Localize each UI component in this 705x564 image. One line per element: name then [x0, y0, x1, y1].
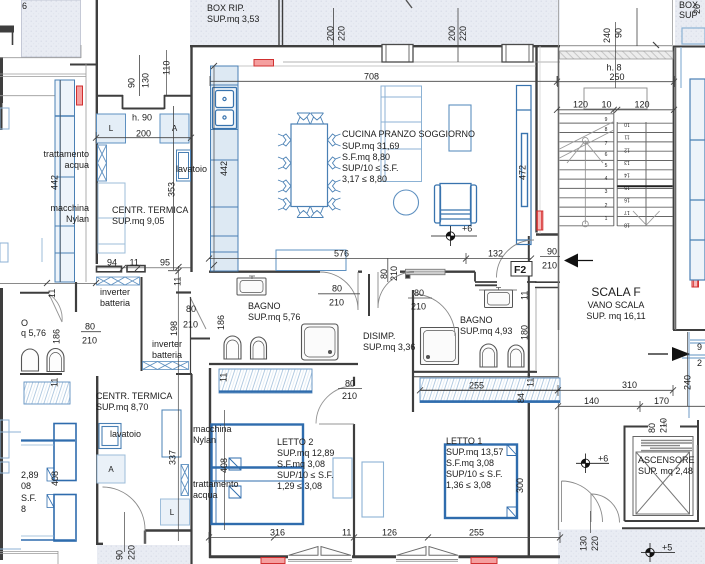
door disimp bottom to letto1 [316, 386, 354, 424]
left unit misc blue lines top [0, 432, 21, 549]
dim 90/130 rotated [127, 73, 151, 88]
svg-text:16: 16 [624, 197, 630, 203]
svg-text:inverter: inverter [100, 287, 130, 297]
svg-text:300: 300 [515, 478, 525, 493]
dim 442 left unit [60, 80, 62, 282]
svg-text:1,36 ≤ 3,08: 1,36 ≤ 3,08 [446, 480, 491, 490]
big room interior top line [210, 65, 536, 67]
grey area far right top [675, 0, 705, 47]
dim 240/90 stair top [560, 22, 672, 88]
dim 576 line [209, 253, 466, 264]
wall y336 stub [191, 338, 210, 340]
left unit wall line [85, 64, 87, 282]
svg-text:2,89: 2,89 [21, 470, 39, 480]
dim 110 [166, 50, 168, 95]
svg-text:Nylan: Nylan [66, 214, 89, 224]
wall letto1 right [528, 374, 530, 559]
dim 80/210 rotated near x388 [387, 258, 389, 282]
svg-text:h. 8: h. 8 [607, 63, 622, 73]
bagno1 wc [224, 336, 241, 359]
dim 90/220 door bottom left [124, 512, 126, 552]
svg-text:240: 240 [683, 375, 693, 390]
far right unit wall [675, 47, 677, 330]
kitchen sink [213, 88, 237, 129]
wall disimp/bagno2 divider [412, 290, 414, 412]
hatched wardrobe bagno1 [219, 369, 312, 393]
svg-text:S.F.mq 3,08: S.F.mq 3,08 [446, 458, 494, 468]
box L letto2 corner [161, 410, 190, 525]
door bagno1 (from soggiorno) [320, 272, 358, 310]
dim line h8/250 [557, 76, 675, 87]
svg-text:SUP.mq 12,89: SUP.mq 12,89 [277, 448, 334, 458]
svg-text:3: 3 [605, 189, 608, 195]
wall y374 left-center [176, 373, 192, 375]
chairs left [278, 134, 291, 210]
left unit bidet [47, 349, 64, 372]
svg-text:2: 2 [697, 358, 702, 368]
X hatch box inverter2 [143, 362, 189, 370]
stair step numbers right flight (mirrored) [624, 121, 630, 228]
svg-text:120: 120 [573, 100, 588, 110]
svg-text:576: 576 [334, 249, 349, 259]
dim 94 11 95 [96, 267, 191, 269]
svg-text:408: 408 [50, 471, 60, 486]
svg-text:353: 353 [167, 182, 177, 197]
svg-text:S.F.mq 8,80: S.F.mq 8,80 [342, 152, 390, 162]
sill line under top windows [283, 61, 560, 63]
dim line 120 10 120 [557, 109, 675, 111]
chairs bottom [297, 207, 324, 218]
lift X box [636, 452, 690, 514]
wall BOX RIP right (double) [279, 0, 283, 46]
stair rail line and circles [584, 141, 586, 225]
wall left corridor stub [75, 282, 77, 312]
wall centr.termica top (door gap 123-164) [96, 96, 191, 109]
svg-text:11: 11 [130, 258, 139, 268]
stair step numbers left flight [605, 117, 608, 222]
svg-text:SUP: SUP [679, 10, 698, 20]
svg-text:84: 84 [516, 393, 526, 403]
dim 130/220 bottom right [590, 511, 592, 533]
left unit edge fixtures [0, 108, 9, 473]
svg-text:SCALA F: SCALA F [591, 285, 640, 299]
wall cavity top right [535, 282, 560, 287]
svg-text:SUP.mq 8,70: SUP.mq 8,70 [96, 402, 148, 412]
svg-text:110: 110 [162, 61, 172, 75]
svg-text:3,17 ≤ 8,80: 3,17 ≤ 8,80 [342, 174, 387, 184]
svg-text:A: A [172, 124, 178, 133]
kitchen counter strip [211, 66, 239, 271]
svg-text:h. 90: h. 90 [132, 113, 152, 123]
door jambs h.90 [123, 95, 165, 109]
svg-text:BAGNO: BAGNO [460, 315, 493, 325]
pouf circle [394, 190, 419, 215]
svg-text:1: 1 [605, 216, 608, 222]
svg-text:1,29 ≤ 3,08: 1,29 ≤ 3,08 [277, 481, 322, 491]
svg-text:08: 08 [21, 481, 31, 491]
vent X-box lower [181, 465, 189, 496]
svg-text:11: 11 [342, 528, 351, 538]
svg-text:13: 13 [624, 159, 630, 165]
svg-text:130: 130 [141, 73, 151, 88]
svg-text:trattamento: trattamento [43, 149, 89, 159]
stair flight dividers [614, 110, 646, 227]
svg-text:SUP.mq 3,36: SUP.mq 3,36 [363, 342, 415, 352]
arrow right unit (pointing right) [648, 353, 668, 355]
dim 80/210 left unit [81, 331, 101, 333]
left unit wc [22, 349, 39, 371]
marker +5 grey area [641, 543, 675, 563]
svg-text:4: 4 [605, 176, 608, 182]
svg-text:337: 337 [168, 450, 178, 465]
line under grey top-left block [0, 45, 81, 58]
wall bagno1 bottom [209, 363, 358, 365]
svg-text:11: 11 [624, 134, 629, 140]
svg-text:SUP.mq 5,76: SUP.mq 5,76 [248, 312, 300, 322]
stair landing rect [584, 88, 647, 109]
X hatch box corridor top [97, 277, 140, 285]
wall letto divider [353, 377, 355, 558]
wall top external (big room north wall) [190, 45, 560, 47]
door left unit bagno [49, 294, 62, 322]
bagno2 washbasin [479, 288, 517, 308]
svg-text:macchina: macchina [193, 424, 232, 434]
red marker top kitchen [254, 60, 274, 67]
wall inverter room top [176, 291, 191, 293]
dim 130/220 rotated [579, 536, 601, 551]
svg-text:186: 186 [216, 315, 226, 330]
svg-text:11: 11 [520, 291, 530, 300]
left unit thin lines [0, 74, 86, 96]
svg-text:6: 6 [605, 152, 608, 158]
door disimp top [378, 272, 414, 308]
dim 90/210 F2 [540, 255, 560, 257]
lift car [633, 437, 693, 516]
svg-text:210: 210 [659, 418, 669, 433]
sideboard bottom of soggiorno [276, 250, 346, 271]
grey area top-left block [22, 0, 81, 57]
bagno1 shower [302, 324, 339, 360]
wall top-left unit corner [70, 64, 97, 66]
tall cabinet strip left unit [55, 80, 75, 282]
dim 140/170 [558, 401, 705, 412]
svg-text:SUP.mq 4,93: SUP.mq 4,93 [460, 326, 512, 336]
svg-text:CENTR. TERMICA: CENTR. TERMICA [96, 391, 172, 401]
svg-text:SUP/10 ≤ S.F.: SUP/10 ≤ S.F. [446, 469, 502, 479]
svg-text:SUP.mq 31,69: SUP.mq 31,69 [342, 141, 399, 151]
svg-text:240: 240 [602, 28, 612, 43]
wall ascensore area [624, 420, 699, 521]
dim 353 v-line [168, 106, 179, 271]
door bagno2 [413, 294, 455, 336]
svg-text:6: 6 [22, 1, 27, 11]
svg-text:17: 17 [624, 209, 630, 215]
bagno2 wc [480, 344, 497, 367]
svg-text:12: 12 [624, 147, 630, 153]
left unit small marks [41, 238, 43, 262]
svg-text:LETTO 2: LETTO 2 [277, 437, 313, 447]
vent X-box termica [98, 145, 107, 181]
svg-text:SUP/10 ≤ S.F.: SUP/10 ≤ S.F. [342, 163, 398, 173]
red marker left unit [77, 86, 83, 105]
grey area BOX RIP and top band [190, 0, 560, 46]
svg-text:180: 180 [520, 325, 530, 340]
stair steps [560, 114, 673, 226]
svg-text:8: 8 [21, 504, 26, 514]
marker +6 landing [576, 454, 609, 474]
svg-text:11: 11 [173, 277, 183, 286]
box A lower [97, 455, 125, 483]
svg-text:210: 210 [542, 261, 557, 271]
dim 80/210 ascensore door [663, 420, 665, 427]
svg-text:+5: +5 [662, 543, 672, 553]
label F2 [511, 262, 532, 277]
svg-text:708: 708 [364, 72, 379, 82]
svg-text:170: 170 [654, 396, 669, 406]
svg-text:210: 210 [82, 336, 97, 346]
svg-text:200: 200 [326, 26, 336, 41]
svg-text:220: 220 [590, 536, 600, 551]
svg-text:210: 210 [411, 302, 426, 312]
dim 80/210 bagno1 door [318, 293, 360, 295]
dim 255 wardrobe line [420, 389, 560, 391]
svg-text:90: 90 [547, 247, 557, 257]
svg-text:80: 80 [85, 322, 95, 332]
bagno1 washbasin [237, 276, 266, 295]
svg-text:q 5,76: q 5,76 [21, 328, 46, 338]
bagno2 bidet [508, 345, 524, 367]
svg-text:9: 9 [697, 342, 702, 352]
left unit beds [21, 424, 76, 542]
dim 240/90 [602, 28, 624, 43]
svg-text:batteria: batteria [152, 350, 182, 360]
svg-text:80: 80 [647, 423, 657, 433]
dim 310 [558, 385, 673, 396]
dim 80/210 soggiorno-disimp rotated [379, 266, 399, 281]
chairs top [297, 113, 324, 124]
svg-text:126: 126 [382, 528, 397, 538]
dim 337 corridor [177, 266, 179, 541]
svg-text:140: 140 [584, 396, 599, 406]
window W1 [382, 45, 413, 63]
dim 442 kitchen v-line [213, 66, 215, 271]
wall letto2 corridor left [209, 368, 211, 558]
window W2 [502, 45, 533, 63]
svg-text:90: 90 [127, 78, 137, 88]
wall step F2 vestibule [475, 272, 537, 286]
svg-text:80: 80 [379, 269, 389, 279]
armchair [435, 184, 477, 226]
svg-text:130: 130 [579, 536, 589, 551]
wardrobe letto2 right [333, 458, 352, 498]
wall bagno1/disimp divider [368, 274, 370, 316]
svg-text:acqua: acqua [193, 490, 218, 500]
svg-text:442: 442 [50, 175, 60, 190]
svg-text:198: 198 [169, 321, 179, 336]
svg-text:11: 11 [219, 373, 229, 382]
wall bottom-left entry [96, 531, 191, 544]
svg-text:18: 18 [624, 222, 630, 228]
lavatoio box (upper) [177, 150, 191, 181]
svg-text:95: 95 [160, 258, 170, 268]
wall top-left corner piece [0, 26, 14, 33]
window letto1 south [396, 547, 458, 562]
macchina nylan box lower [162, 410, 181, 457]
svg-text:Nylan: Nylan [193, 435, 216, 445]
svg-text:macchina: macchina [50, 203, 89, 213]
svg-text:SUP. mq 2,48: SUP. mq 2,48 [638, 466, 693, 476]
chairs right [328, 134, 341, 210]
svg-text:S.F.mq 3,08: S.F.mq 3,08 [277, 459, 325, 469]
stair cut diagonals [560, 122, 614, 164]
wall BOX RIP left [190, 45, 192, 96]
dim 240 v [687, 332, 689, 406]
stair down arrow V [633, 211, 660, 225]
svg-text:CUCINA PRANZO SOGGIORNO: CUCINA PRANZO SOGGIORNO [342, 129, 475, 139]
box A [160, 114, 189, 143]
bagno1 bidet [251, 337, 267, 359]
wall inverter right thin [190, 297, 192, 374]
dim 316/11/126/255 bottom [209, 532, 560, 543]
svg-text:5: 5 [605, 163, 608, 169]
stair section cut thick [617, 185, 672, 187]
svg-text:10: 10 [624, 121, 630, 127]
svg-text:408: 408 [219, 458, 229, 473]
svg-text:472: 472 [518, 165, 528, 180]
svg-text:O: O [21, 318, 28, 328]
svg-text:trattamento: trattamento [193, 479, 239, 489]
svg-text:7: 7 [605, 141, 608, 147]
wall bagno2 bottom [413, 371, 537, 373]
svg-text:186: 186 [52, 329, 62, 344]
svg-text:11: 11 [50, 378, 60, 387]
svg-text:lavatoio: lavatoio [176, 164, 207, 174]
dim 200/220 v-lines top [334, 8, 638, 62]
svg-text:SUP.mq 3,53: SUP.mq 3,53 [207, 14, 259, 24]
stair shaft left wall [558, 46, 560, 330]
svg-text:442: 442 [219, 161, 229, 176]
svg-text:+6: +6 [598, 454, 608, 464]
svg-text:batteria: batteria [100, 298, 130, 308]
wall centr.termica 8,70 left [96, 376, 98, 544]
lavatoio box (lower) [99, 424, 121, 449]
boiler tall lightblue [98, 183, 125, 253]
wall middle horizontal y272 (bagno top) [209, 271, 475, 273]
wall stair right [673, 46, 675, 330]
wall inverter room center [141, 277, 143, 371]
svg-text:L: L [170, 508, 175, 517]
svg-text:A: A [108, 465, 114, 474]
svg-text:310: 310 [622, 380, 637, 390]
svg-text:F2: F2 [514, 264, 526, 276]
wall centr.termica left [96, 0, 98, 264]
dim 408 letto2 [224, 410, 226, 530]
window letto2 south [288, 547, 352, 562]
left unit bottom thin lines [0, 551, 58, 564]
svg-text:+6: +6 [462, 224, 472, 234]
bookcase tall (soggiorno) [381, 86, 422, 182]
svg-text:132: 132 [488, 249, 503, 259]
svg-text:SUP. mq 16,11: SUP. mq 16,11 [586, 311, 645, 321]
bagno2 shower [421, 328, 459, 365]
svg-text:94: 94 [107, 258, 117, 268]
wall left unit bagno pieces [20, 293, 62, 374]
svg-text:inverter: inverter [152, 339, 182, 349]
entrance arrow F2 (pointing left) [573, 260, 593, 262]
dim h.90/130 v-line [139, 55, 141, 96]
svg-text:9: 9 [605, 117, 608, 123]
left unit dim lines [0, 282, 97, 284]
bed letto2 [212, 425, 304, 525]
box rip top-right walls [406, 0, 412, 8]
marker +6 soggiorno [431, 224, 477, 247]
svg-text:SUP.mq 9,05: SUP.mq 9,05 [112, 216, 164, 226]
wall kitchen / termica divider [190, 96, 192, 272]
tall cabinet right of soggiorno [517, 86, 532, 245]
wall above grey bottom-right [622, 527, 705, 529]
svg-text:220: 220 [127, 545, 137, 560]
dim 132 line [466, 258, 531, 260]
grey area bottom-right landing [558, 530, 705, 564]
svg-text:210: 210 [342, 391, 357, 401]
stair shaft upper sides [559, 0, 673, 46]
svg-text:255: 255 [469, 528, 484, 538]
svg-text:11: 11 [526, 378, 536, 387]
stair top hatched landing edge [560, 51, 674, 59]
svg-text:250: 250 [610, 72, 625, 82]
dim 708 line [210, 76, 557, 86]
svg-text:80: 80 [186, 304, 196, 314]
bed letto1 [445, 445, 517, 519]
wall bagno2 right x529 [528, 236, 530, 374]
svg-text:LETTO 1: LETTO 1 [446, 436, 482, 446]
red marker letto1 sill [471, 558, 497, 564]
hatched wardrobe left unit [24, 382, 70, 404]
svg-text:80: 80 [414, 288, 424, 298]
box L [97, 114, 126, 143]
grey area bottom-left corridor [97, 545, 190, 564]
cavity inner line [535, 289, 537, 371]
svg-text:8: 8 [605, 127, 608, 133]
dim 200/220 window2 [447, 26, 468, 41]
red marker big room right wall [537, 211, 543, 230]
lift door stripes [641, 440, 692, 450]
svg-text:SUP.mq 13,57: SUP.mq 13,57 [446, 447, 503, 457]
svg-text:lavatoio: lavatoio [110, 429, 141, 439]
wall big room right [535, 46, 537, 233]
wall jog y234 [536, 233, 558, 235]
shelf grey on wall y272 [406, 269, 446, 278]
svg-text:10: 10 [602, 100, 612, 110]
svg-text:acqua: acqua [64, 160, 89, 170]
svg-text:BOX: BOX [679, 0, 698, 10]
svg-text:80: 80 [332, 284, 342, 294]
svg-text:BOX RIP.: BOX RIP. [207, 3, 245, 13]
door F2 entrance [497, 240, 535, 278]
svg-text:14: 14 [624, 172, 630, 178]
svg-text:2: 2 [605, 203, 608, 209]
hatched wardrobe letto1 top [420, 378, 560, 403]
svg-text:S.F.: S.F. [21, 493, 37, 503]
svg-text:200: 200 [136, 129, 151, 139]
svg-text:BAGNO: BAGNO [248, 301, 281, 311]
svg-text:200: 200 [447, 26, 457, 41]
tv cabinet [449, 105, 471, 151]
svg-text:L: L [109, 124, 114, 133]
wall below scala f [673, 329, 705, 331]
svg-text:DISIMP.: DISIMP. [363, 331, 395, 341]
svg-text:CENTR. TERMICA: CENTR. TERMICA [112, 205, 188, 215]
